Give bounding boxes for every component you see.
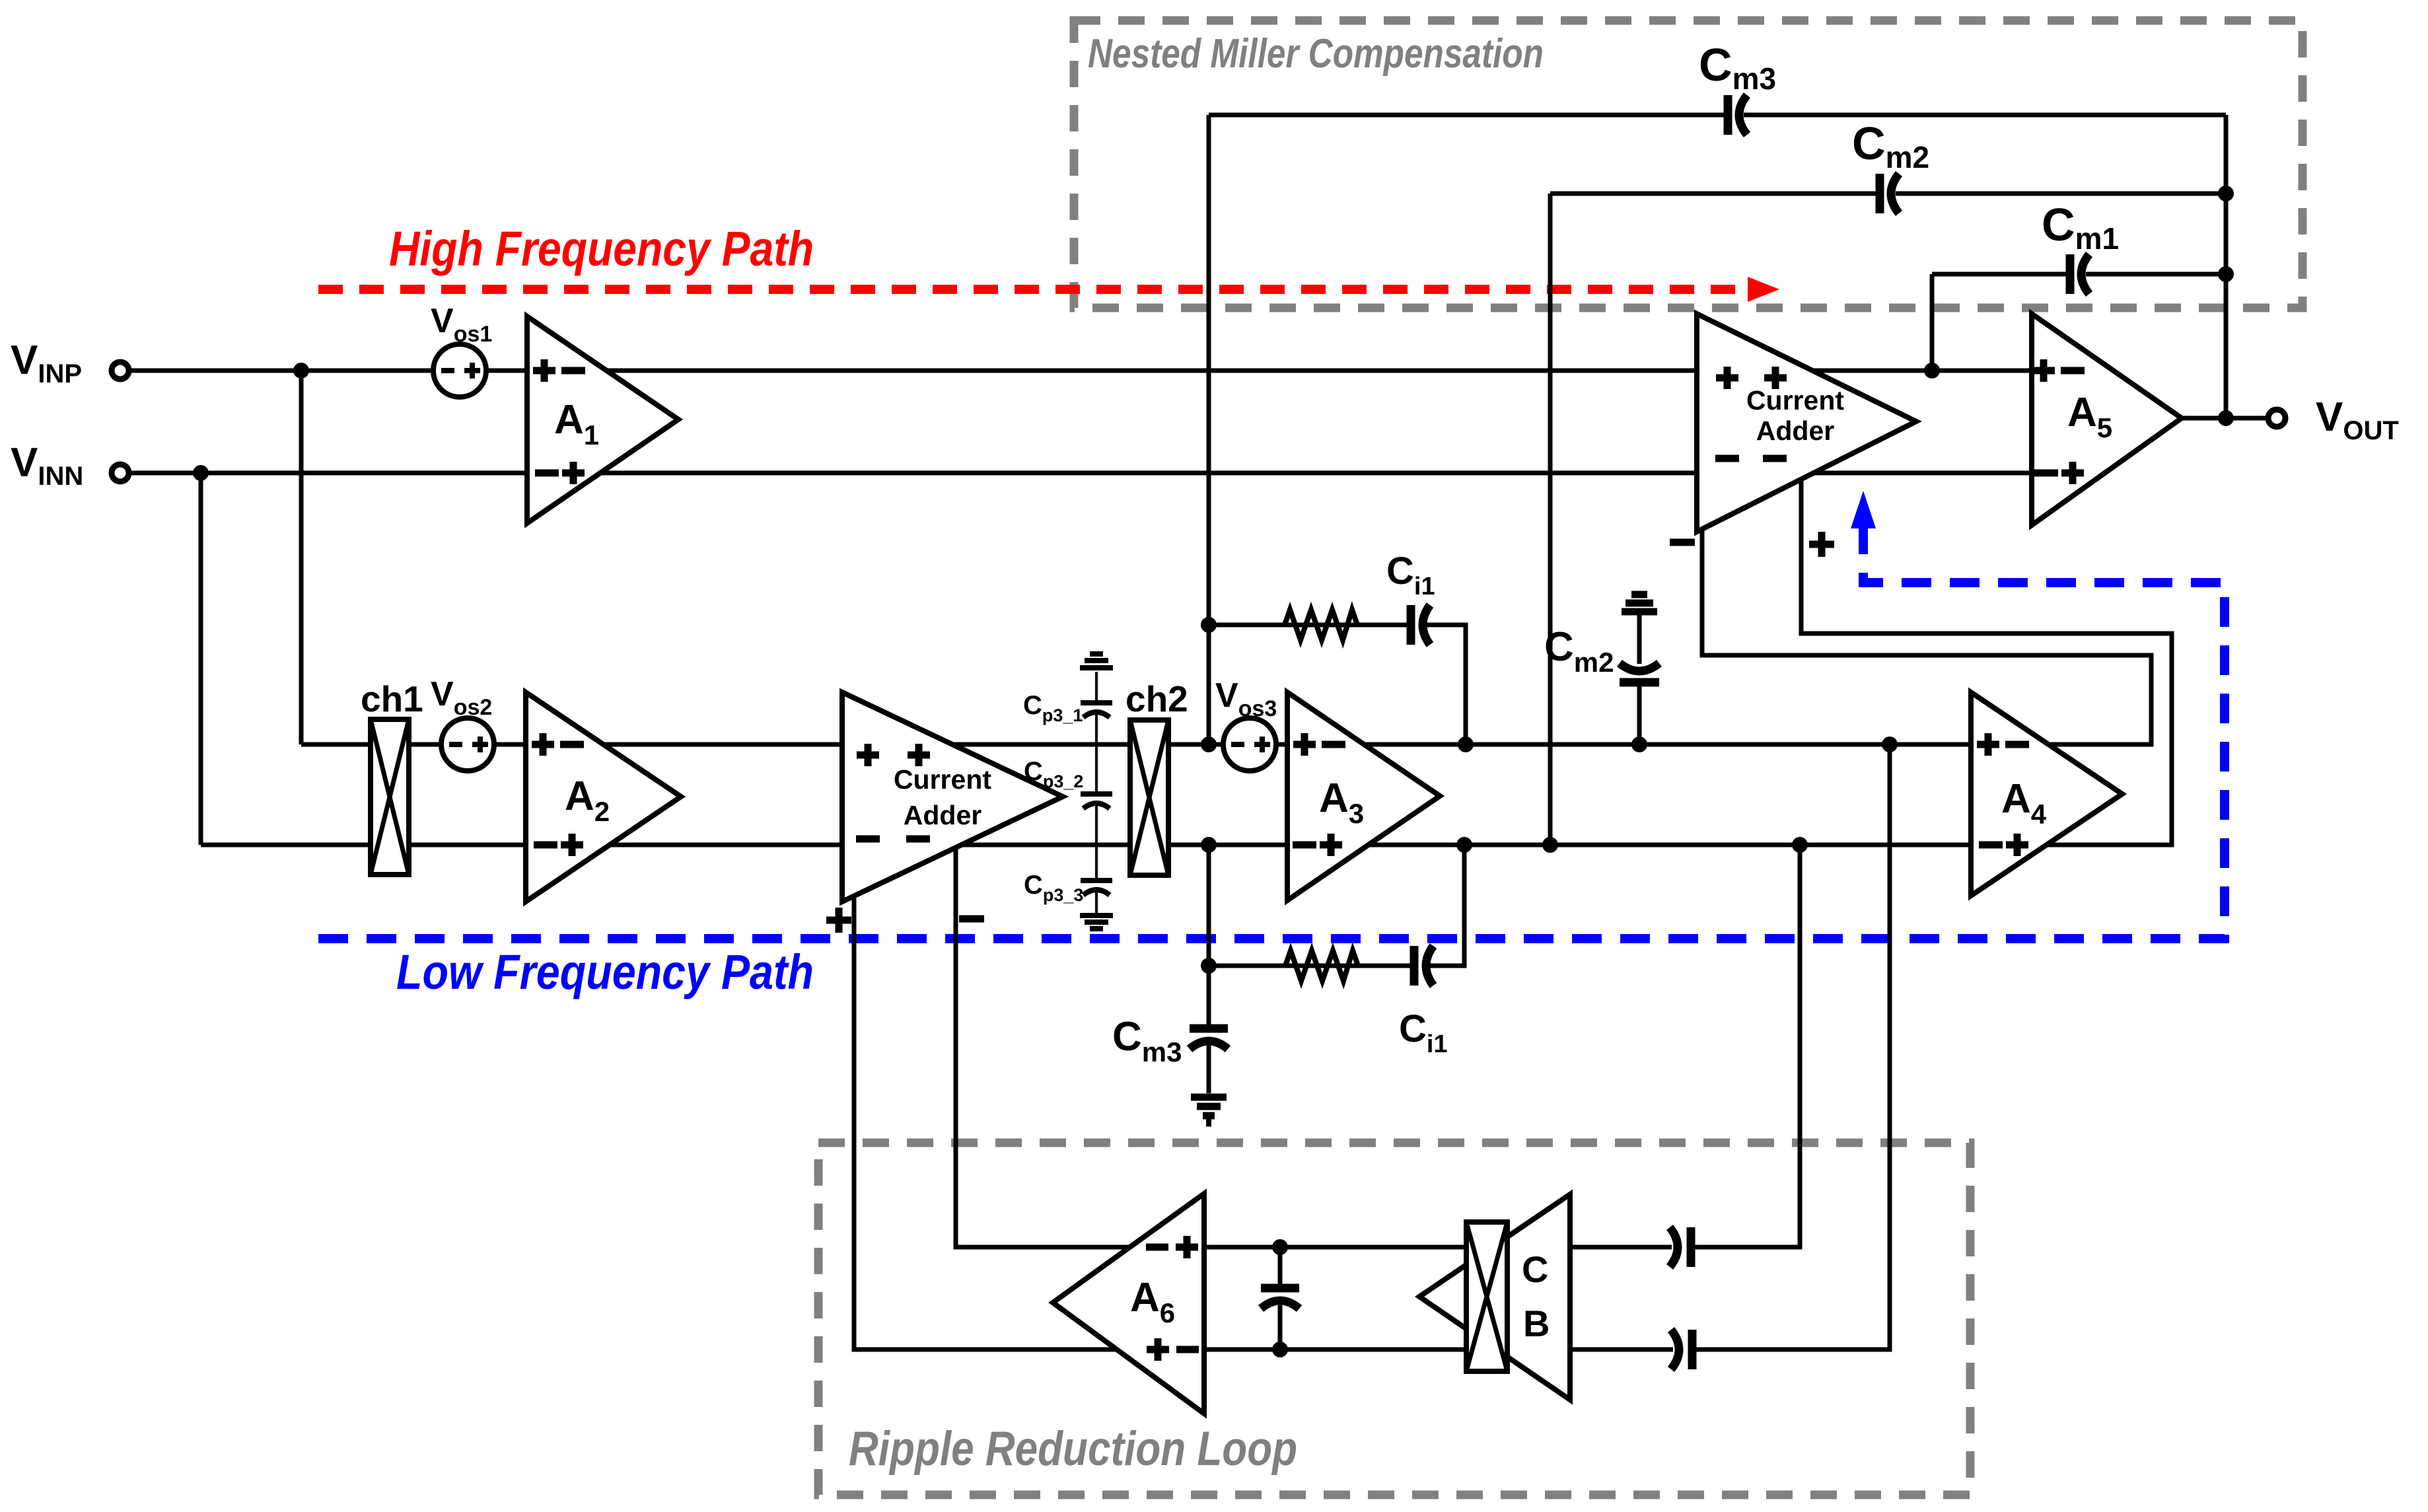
capacitor Ci1 (upper RC branch) xyxy=(1411,605,1430,645)
wire: low-frequency bottom row (wire B, y=1279) hooking around A4 up to current-adder plus input xyxy=(201,478,2172,845)
wire: Cm3 feedback top row (y=174) with gap for capacitor xyxy=(1209,113,1725,118)
marks: A1 inputs (+ - / - +) xyxy=(533,359,585,484)
op-amp: lower Current Adder xyxy=(842,692,1063,902)
capacitor: Cm2 shunt (vertical, curved plate above straight) xyxy=(1620,663,1659,682)
capacitor: RRL integrating cap xyxy=(1261,1288,1299,1309)
svg-text:Current: Current xyxy=(1746,385,1844,415)
capacitor Cm2 (series) xyxy=(1880,174,1899,213)
node: x=1830 junction on wire A xyxy=(1201,737,1217,752)
wire: Cm2 shunt cap stem from inverted ground down to wire A (x=2482) xyxy=(1637,611,1642,664)
node: Cm1 left plate / A5 + input junction xyxy=(1924,363,1940,378)
node: lower Ci1 branch corner junction xyxy=(1201,958,1217,974)
node: CB top output return on wire B xyxy=(1792,837,1808,853)
terminal: VINN xyxy=(112,464,129,482)
svg-text:C: C xyxy=(1522,1248,1548,1290)
resistor: lower Ci1 branch xyxy=(1285,951,1358,981)
node: x=1830 junction on wire B xyxy=(1201,837,1217,853)
marks: lower Current Adder output ports (+ / -) xyxy=(826,908,984,933)
node: VINP tap junction xyxy=(293,363,309,378)
wire: thin parasitic Cp3 chain stem (x=1660) xyxy=(1095,672,1098,700)
capacitor Cp3_2 (parasitic) xyxy=(1081,794,1112,809)
wire: lower Ci1 RC branch across A3 (y=1462) with cap gap xyxy=(1209,845,1411,966)
node: VOUT output junction xyxy=(2218,410,2234,426)
arrowhead: High Frequency Path xyxy=(1748,277,1779,302)
marks: A4 inputs xyxy=(1977,733,2029,856)
path: Low Frequency Path (blue dashed) xyxy=(318,528,2225,939)
box: Ripple Reduction Loop (dashed gray) xyxy=(818,1143,1970,1495)
svg-text:Nested Miller Compensation: Nested Miller Compensation xyxy=(1088,31,1544,77)
op-amp A1 xyxy=(527,316,678,523)
marks: lower Current Adder inputs (+ + / - -) xyxy=(856,744,930,839)
node: upper Ci1 branch return on wire A xyxy=(1458,737,1474,752)
wire: VINP input row (top row y=561) from terminal to A5 xyxy=(129,369,2032,373)
wire: CB chopper bottom output to cap and up to wire A node (x=2861) xyxy=(1570,1348,1673,1352)
svg-text:ch2: ch2 xyxy=(1125,678,1188,719)
wire: vertical from Cm1 row down to A5 + input (x=2925) xyxy=(1930,274,1935,371)
marks: Vos3 minus/plus xyxy=(1231,737,1270,752)
svg-text:Low Frequency Path: Low Frequency Path xyxy=(396,945,814,999)
node: CB bottom output return on wire A xyxy=(1882,737,1898,752)
block: CB chopper triangle (points left) xyxy=(1419,1194,1570,1400)
marks: top Current Adder lower ports (- / +) xyxy=(1670,532,1834,557)
wire: upper Ci1 RC branch across A3 (y=946) with cap gap xyxy=(1209,623,1408,628)
node: RRL cap bottom junction xyxy=(1272,1342,1288,1357)
op-amp A3 xyxy=(1287,692,1440,900)
wire: Cm3 shunt cap stem to ground (x=1830) xyxy=(1207,966,1211,1025)
op-amp A5 xyxy=(2032,314,2182,525)
node: upper Ci1 branch tap on x=1830 xyxy=(1201,617,1217,633)
wire: right vertical bus joining Cm1/Cm2/Cm3 to output node (x=3370) xyxy=(2224,115,2229,418)
node: VINN tap junction xyxy=(193,465,209,481)
node: RRL cap top junction xyxy=(1272,1239,1288,1255)
capacitor: CB top output cap xyxy=(1670,1227,1691,1267)
resistor: upper Ci1 branch xyxy=(1285,610,1357,640)
node: lower Ci1 branch return on wire B xyxy=(1456,837,1472,853)
terminal: VINP xyxy=(112,362,129,379)
wire: current-adder plus output down to A6 bottom input row (x=1293, y=2043) xyxy=(854,898,1466,1350)
svg-text:ch1: ch1 xyxy=(361,678,423,719)
wire: VINN input row (y=716) from terminal to A5 xyxy=(129,471,2032,476)
capacitor: CB bottom output cap xyxy=(1671,1330,1692,1369)
node: Cm2 right end on output bus xyxy=(2218,186,2234,201)
chopper ch1 (box with X) xyxy=(371,719,409,875)
svg-text:Adder: Adder xyxy=(1756,415,1835,446)
capacitor: Cm3 shunt (vertical) xyxy=(1190,1028,1228,1049)
capacitor Cp3_1 (parasitic) xyxy=(1081,703,1112,717)
ground: inverted ground above Cp3_1 xyxy=(1080,654,1113,668)
path: High Frequency Path (red dashed) xyxy=(318,285,1745,294)
marks: A2 inputs xyxy=(532,733,584,856)
chopper: CB box with X xyxy=(1466,1222,1507,1371)
source Vos3 xyxy=(1223,718,1276,771)
marks: A6 inputs xyxy=(1146,1236,1199,1361)
wire: A5 output to VOUT terminal xyxy=(2182,416,2267,421)
wire: vertical from Cm2 row down to A3 lower output row (x=2347) xyxy=(1548,194,1553,845)
ground: inverted ground above Cm2 shunt cap xyxy=(1622,594,1657,612)
wire: current-adder minus output down to A6 top input row (x=1447, y=1888) xyxy=(956,846,1466,1247)
capacitor Ci1 (lower RC branch) xyxy=(1414,946,1433,986)
wire: vertical from Cm3 row down to A3 input node (x=1830) xyxy=(1207,115,1211,744)
box: Nested Miller Compensation (dashed gray) xyxy=(1074,20,2303,308)
node: Cm1 right end on output bus xyxy=(2218,266,2234,282)
op-amp: top Current Adder xyxy=(1697,314,1916,532)
op-amp A6 (points left) xyxy=(1053,1194,1204,1414)
capacitor Cp3_3 (parasitic) xyxy=(1081,881,1112,895)
wire: Cm2 feedback row (y=293) with gap for capacitor xyxy=(1550,192,1876,196)
wire: vertical tap from VINN node down to low-frequency bottom row xyxy=(199,473,203,845)
node: Cm2 shunt cap on wire A xyxy=(1631,737,1647,752)
chopper ch2 (box with X) xyxy=(1130,720,1168,875)
wire: low-frequency top row (wire A, y=1127) hooking around A4 up to current-adder minus input xyxy=(301,526,2151,744)
node: Cm2 vertical line on wire B xyxy=(1542,837,1558,853)
marks: top Current Adder inputs (+ + / - -) xyxy=(1715,367,1787,458)
svg-text:Current: Current xyxy=(894,764,991,795)
marks: A3 inputs xyxy=(1293,733,1345,856)
svg-text:High Frequency Path: High Frequency Path xyxy=(389,221,814,276)
svg-text:B: B xyxy=(1523,1303,1550,1344)
wire: vertical tap from VINP node down to low-frequency top row xyxy=(299,371,304,744)
capacitor Cm1 (series) xyxy=(2070,254,2089,294)
ground: below Cp3_3 xyxy=(1080,916,1113,929)
marks: A5 inputs xyxy=(2032,359,2085,484)
wire: RRL integrating cap stem between A6 input rows (x=1938) xyxy=(1278,1247,1283,1284)
op-amp A2 xyxy=(526,692,681,902)
svg-text:Adder: Adder xyxy=(904,800,982,830)
wire: CB chopper top output to cap and up to wire A/B node (x=2725) xyxy=(1570,1245,1672,1250)
svg-text:Ripple Reduction Loop: Ripple Reduction Loop xyxy=(849,1422,1297,1476)
source Vos2 xyxy=(441,718,494,771)
marks: Vos2 minus/plus xyxy=(449,737,488,752)
capacitor Cm3 (series, top row) xyxy=(1728,95,1747,135)
op-amp A4 xyxy=(1971,692,2122,896)
source Vos1 (offset source circle) xyxy=(433,344,486,397)
arrowhead: Low Frequency Path (blue, pointing up into current adder) xyxy=(1851,491,1876,528)
ground: below Cm3 shunt cap xyxy=(1191,1097,1227,1123)
marks: Vos1 minus/plus xyxy=(441,363,480,378)
wire: Cm1 feedback row (y=415) with gap for capacitor xyxy=(1932,272,2067,277)
terminal: VOUT xyxy=(2268,410,2285,427)
